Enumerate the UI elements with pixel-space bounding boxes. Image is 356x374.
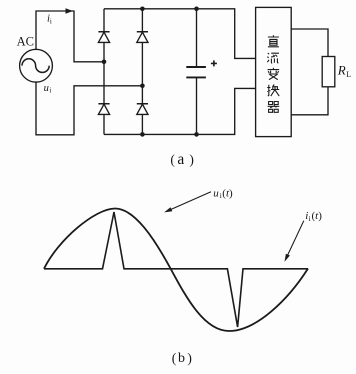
svg-text:u: u <box>213 187 219 199</box>
svg-text:i: i <box>50 18 52 26</box>
svg-text:b: b <box>178 351 185 366</box>
svg-text:): ) <box>187 351 192 366</box>
svg-text:R: R <box>337 63 346 78</box>
svg-text:u: u <box>44 83 49 94</box>
svg-text:AC: AC <box>17 34 34 48</box>
svg-text:i: i <box>50 87 52 95</box>
svg-text:(: ( <box>170 152 175 167</box>
svg-text:(t): (t) <box>222 187 233 199</box>
svg-text:a: a <box>177 151 184 168</box>
svg-text:i: i <box>309 214 311 223</box>
svg-text:L: L <box>346 70 351 79</box>
svg-text:): ) <box>189 152 194 167</box>
svg-text:(t): (t) <box>312 210 323 222</box>
svg-text:(: ( <box>172 351 177 366</box>
